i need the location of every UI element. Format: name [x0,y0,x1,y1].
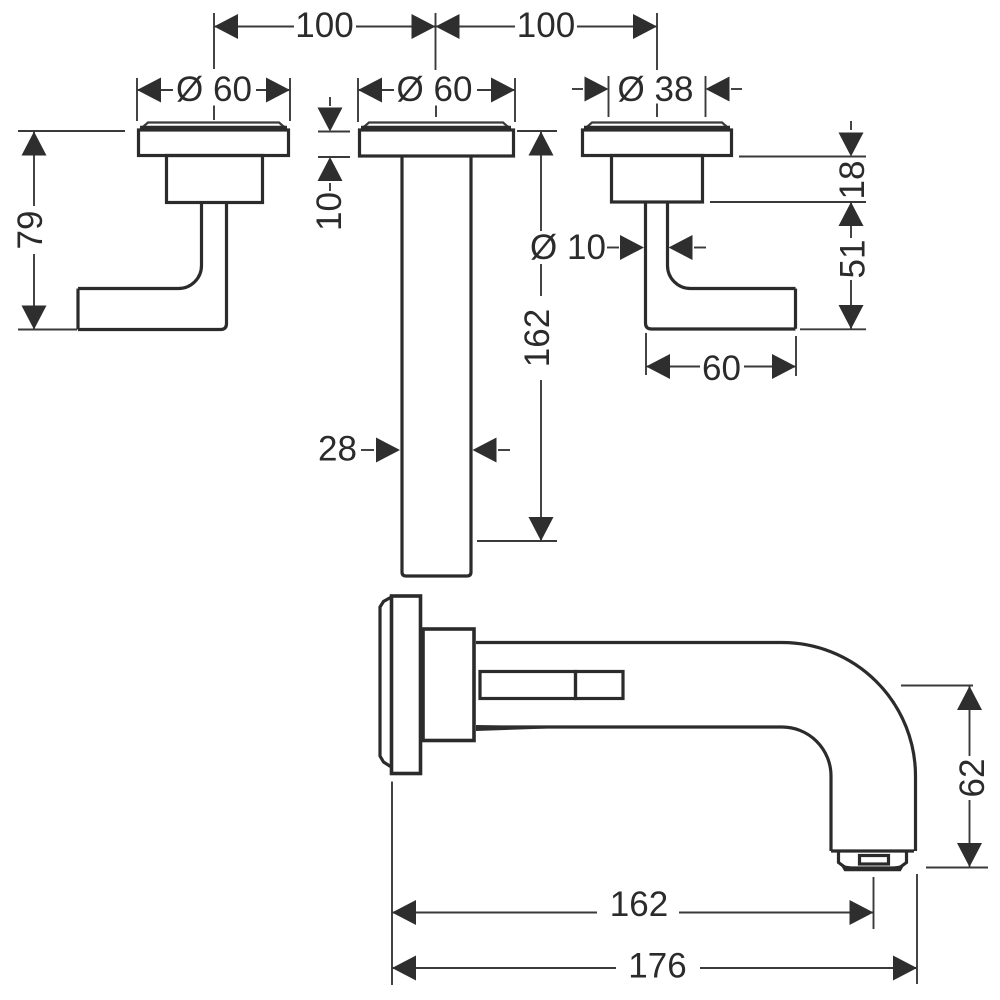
label 51 [838,238,878,280]
svg-text:18: 18 [833,161,872,200]
center tick [656,104,658,118]
spout inner edge [476,727,831,851]
spout base taper wedge [476,725,584,731]
arrow right [893,956,917,981]
arrow right-pointing [376,438,400,463]
extent line left [608,76,610,117]
arrow left [392,900,416,925]
tail above [850,121,852,130]
arrow right [633,14,657,39]
dim line [392,967,917,969]
svg-text:162: 162 [518,309,557,367]
lever end [76,289,79,330]
DIM D60 LEFT [137,70,290,121]
DIM D10 (right handle stem) [526,228,706,267]
DIM 18 + 51 (right side) [710,121,878,329]
dim line [358,89,515,91]
svg-text:Ø 10: Ø 10 [530,228,606,267]
SPOUT FRONT VIEW (middle) [360,123,514,577]
label 100 first [294,8,356,43]
supply body rect B [576,672,624,699]
svg-text:10: 10 [310,192,349,231]
tail below [329,183,331,191]
lever inner edge [78,203,202,289]
extent line left [645,333,647,375]
escutcheon disc [583,130,732,156]
extent line top [318,131,350,133]
arrow left-pointing [473,438,497,463]
arrow up [318,157,343,181]
dim line [137,89,290,91]
arrow up [839,202,864,226]
extent line lever bottom [800,328,866,330]
SPOUT SIDE VIEW (bottom) [380,596,916,870]
supply body rect A [480,672,576,699]
tail left [361,449,374,451]
DIMS-TOP [214,6,657,70]
DIM 10 (escutcheon height, mid-left) [310,97,350,231]
escutcheon disc [139,130,289,156]
svg-text:62: 62 [953,759,992,798]
DIM D60 MID [358,70,515,122]
escutcheon bevel cap [585,123,730,130]
dim line [969,686,971,867]
extent line spout center [435,13,437,70]
arrow right [772,354,796,379]
arrow right [266,78,290,103]
extent line aerator center [873,877,875,929]
extent line right [795,336,797,376]
arrow right [850,900,874,925]
dim line [392,912,874,914]
svg-text:79: 79 [11,211,50,250]
escutcheon block [392,596,421,774]
arrow mid right-pointing [412,14,436,39]
DIM 60 (right handle lever) [646,333,796,388]
label 79 [14,206,54,254]
arrow left [137,78,161,103]
arrow down [957,843,982,867]
DIM 62 (spout drop) [901,686,992,868]
DIM 28 (pipe width) [318,430,510,469]
extent line bottom [318,156,350,158]
arrow left [358,78,382,103]
svg-text:176: 176 [628,947,686,986]
lever end [794,289,797,329]
arrow down [22,306,47,330]
label 60 [700,350,744,386]
center tick [435,106,437,118]
aerator collar [839,852,907,868]
arrow left [214,14,238,39]
tail right [731,88,742,90]
label 162 [597,887,679,918]
HANDLE 2 (right, side view) [583,123,796,330]
svg-text:Ø 60: Ø 60 [397,70,473,109]
svg-text:51: 51 [834,240,873,279]
label D10 [526,231,610,264]
arrow up [22,132,47,156]
DIM 176 (spout total reach) [392,874,917,986]
extent line top [901,685,973,687]
arrow down [839,133,864,157]
extent line top [18,130,125,132]
lever outer edge [78,203,227,330]
arrow right inward [706,77,730,102]
arrow right-pointing [620,235,644,260]
tail right [498,449,510,451]
wall flange thin plate [380,598,391,767]
extent line body bottom [710,201,866,203]
DIM 162 (spout reach to aerator) [392,782,874,986]
label 100 second [515,8,577,43]
arrow left-pointing [669,235,693,260]
tail right [694,247,706,249]
svg-text:100: 100 [517,6,575,45]
arrow up [957,686,982,710]
extent line left [136,78,138,121]
arrow left [392,956,416,981]
escutcheon bevel cap [362,123,511,130]
arrow mid left-pointing [436,14,460,39]
DIM 162 (middle vertical) [477,131,558,541]
svg-text:162: 162 [610,885,668,924]
escutcheon cap thick band [140,126,287,131]
spout base collar [423,629,474,741]
extent line right [289,78,291,121]
arrow left [646,354,670,379]
svg-text:60: 60 [702,349,741,388]
center tick [213,106,215,121]
escutcheon cap thick band [361,126,511,131]
spout pipe front [402,156,471,576]
aerator face [860,856,889,865]
arrow right [491,78,515,103]
arrow left inward [585,77,609,102]
arrow down [318,108,343,132]
extent line left [357,78,359,122]
DIM 79 (left) [11,131,125,330]
extent line handle1 center [213,13,215,69]
tail above [329,97,331,106]
aerator shoulder line [831,849,914,852]
dim line [646,366,796,368]
spout outer edge [476,643,916,852]
lever inner edge [668,202,796,289]
arrow down bottom [839,305,864,329]
escutcheon disc [360,130,514,156]
extent line handle2 center [656,13,658,70]
escutcheon cap thick band [584,126,730,131]
HANDLE 1 (left, side view) [78,123,289,330]
aerator bottom band [843,867,902,871]
extent line escutcheon bottom [739,156,866,158]
label D60 [173,74,256,105]
svg-text:28: 28 [318,430,357,469]
tail left [572,88,583,90]
svg-text:100: 100 [295,6,353,45]
svg-text:Ø 60: Ø 60 [176,70,252,109]
lever outer edge [646,202,796,329]
extent line right [705,76,707,117]
extent line spout tip [916,874,918,984]
DIM D38 RIGHT [572,70,742,117]
handle body [612,156,703,203]
dim line 51 [850,202,852,329]
dim line [33,132,35,330]
extent line right [514,78,516,122]
label 176 [616,947,700,979]
svg-text:Ø 38: Ø 38 [618,70,694,109]
extent line wall face [391,782,393,986]
extent line bottom [18,329,77,331]
dim line 100+100 [214,26,657,28]
tail left [607,247,619,249]
escutcheon bevel cap [141,123,287,130]
handle body [167,156,263,203]
label D60 [394,74,477,105]
label 62 [950,756,990,800]
extent line bottom [926,867,988,869]
